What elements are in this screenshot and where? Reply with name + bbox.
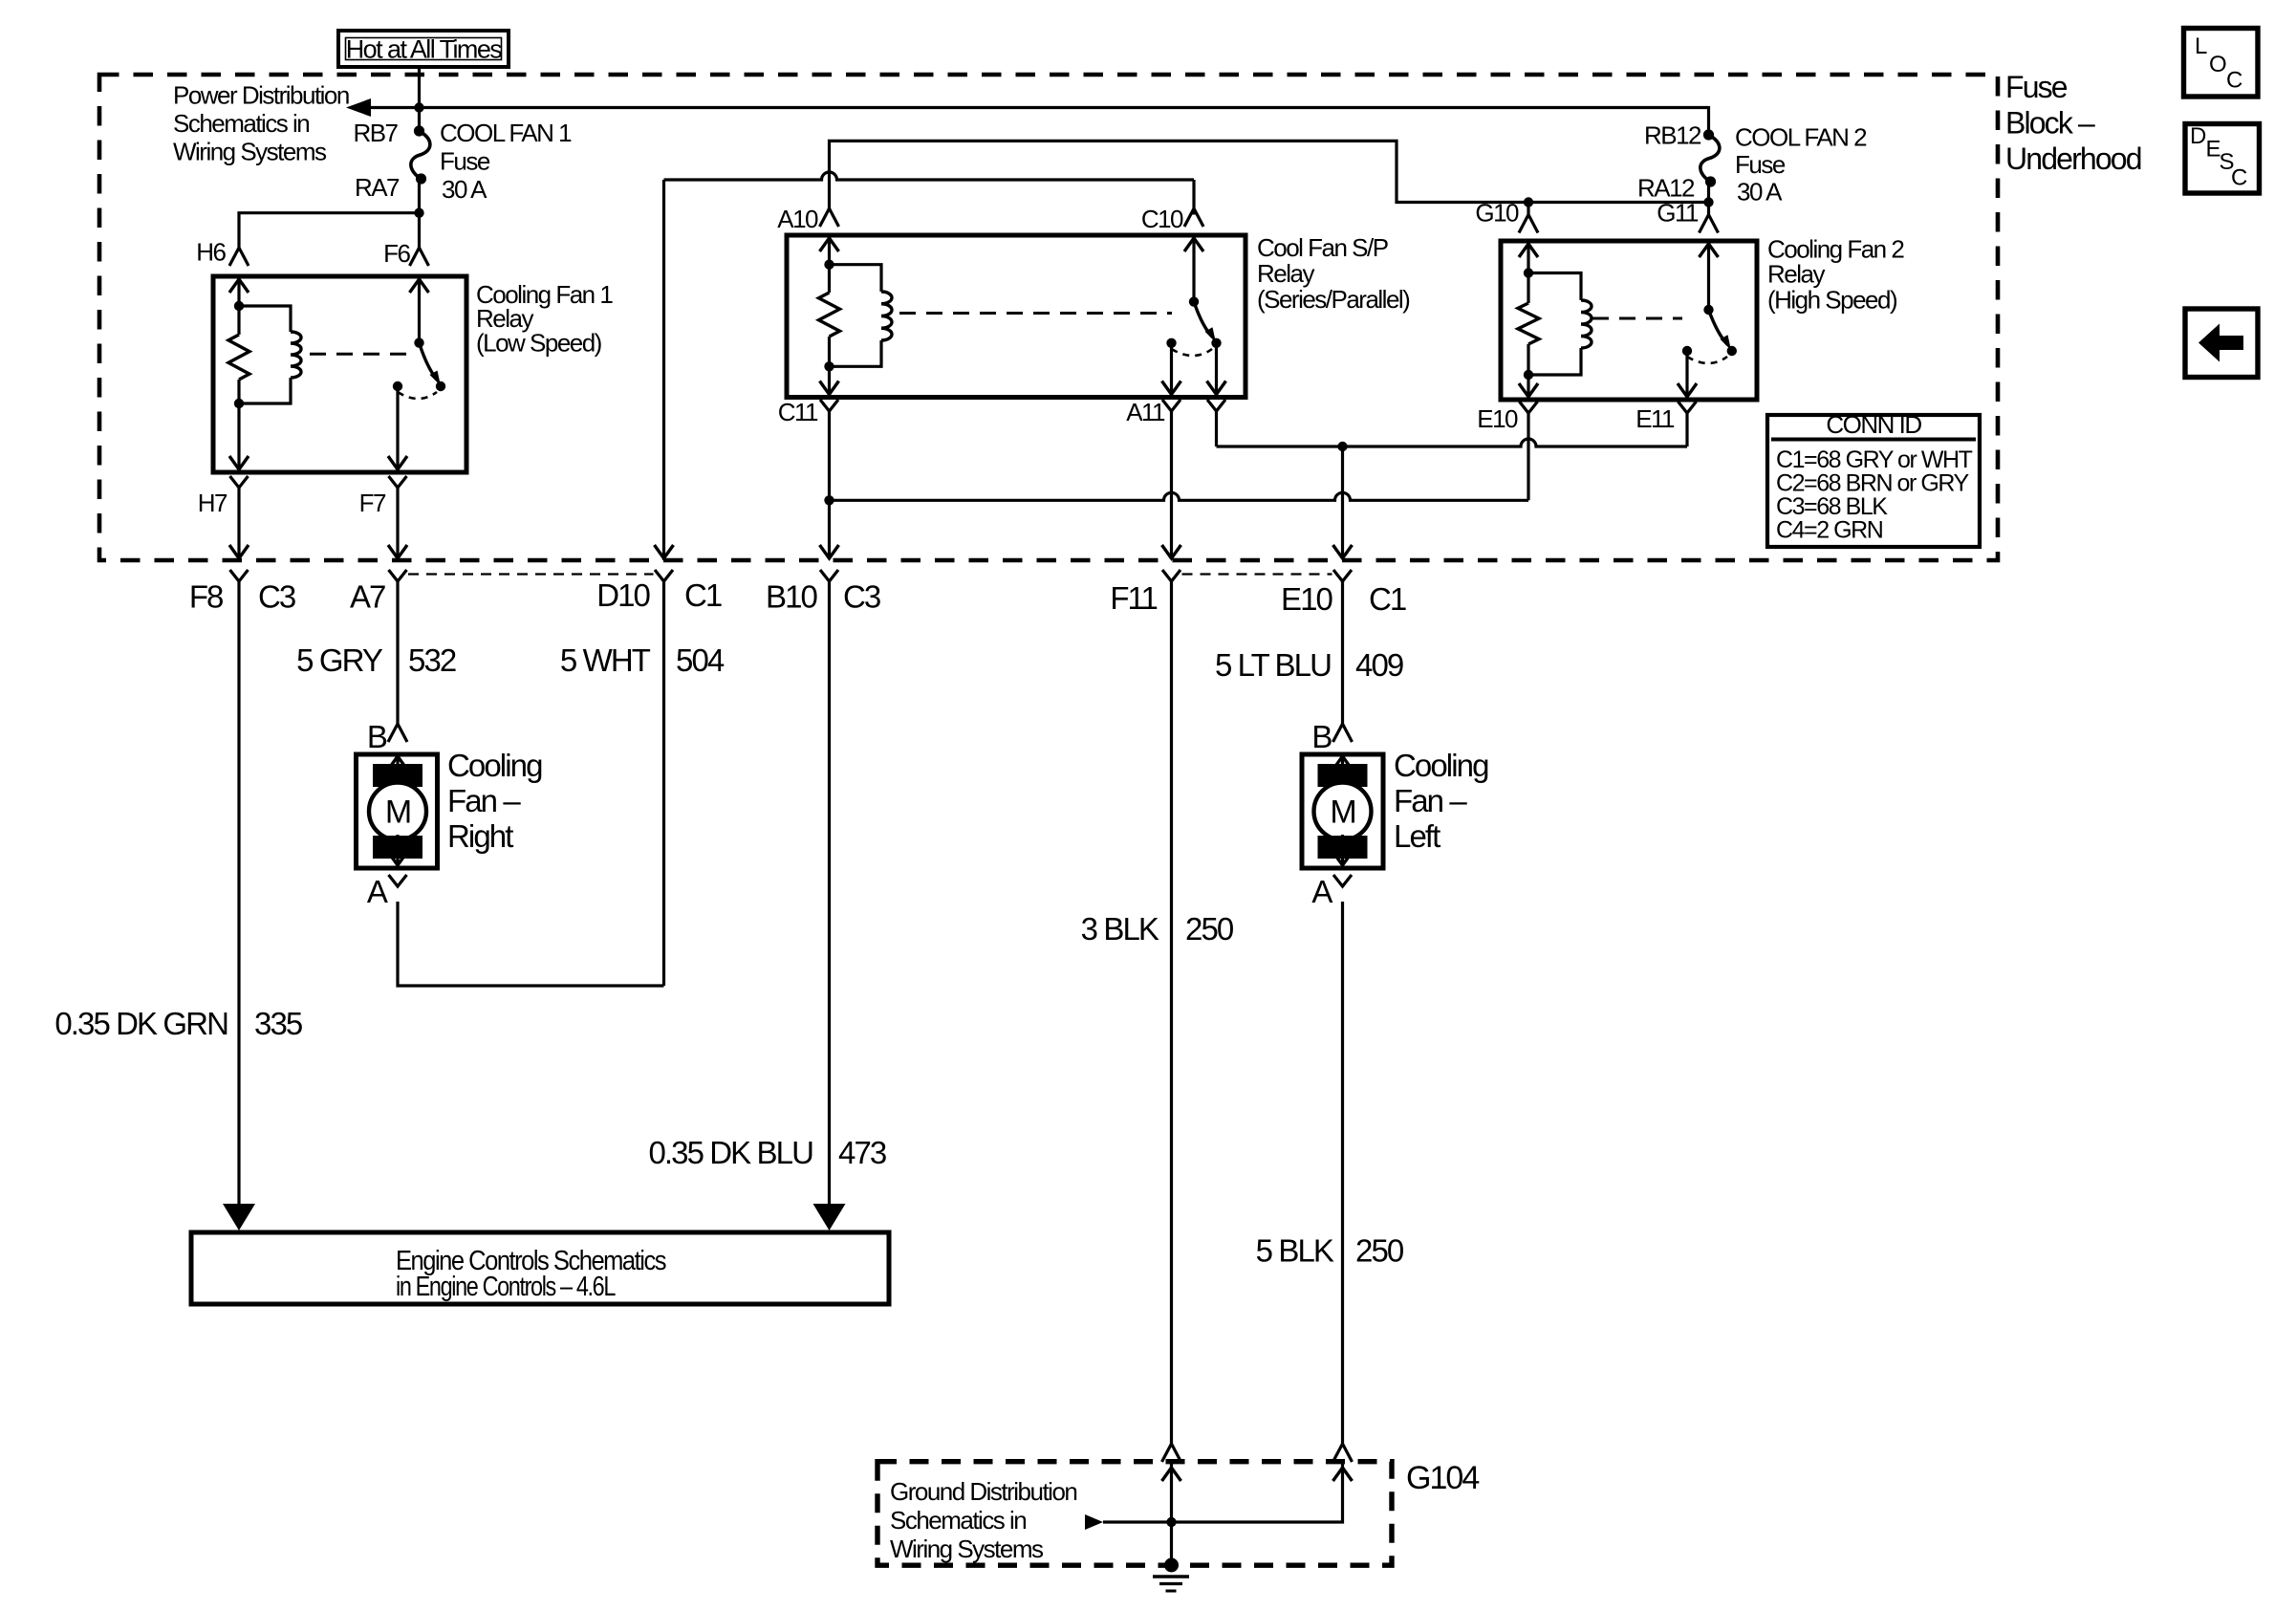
pin H6 <box>229 248 249 266</box>
svg-text:C3: C3 <box>258 579 295 615</box>
relay2 coil output wire <box>828 366 831 394</box>
connector into G104 (3 BLK) <box>1162 1444 1181 1462</box>
svg-text:Cooling: Cooling <box>447 748 542 783</box>
svg-text:Schematics in: Schematics in <box>890 1506 1026 1535</box>
relay2 coil feed arrows <box>820 238 839 251</box>
svg-text:C: C <box>2226 68 2242 94</box>
wire 504 WHT <box>662 581 665 986</box>
svg-text:Relay: Relay <box>1257 259 1314 288</box>
svg-text:COOL FAN 2: COOL FAN 2 <box>1735 123 1867 152</box>
pin relay2 arm output <box>1207 400 1225 411</box>
svg-text:Schematics in: Schematics in <box>173 109 309 138</box>
svg-text:Fan –: Fan – <box>447 783 521 818</box>
svg-text:Power Distribution: Power Distribution <box>173 81 349 110</box>
svg-text:A11: A11 <box>1126 398 1165 426</box>
arrow from ground distribution <box>1085 1514 1103 1530</box>
wire: feed down to fuse2 <box>1707 106 1710 135</box>
svg-text:G10: G10 <box>1475 199 1519 228</box>
wire 250 BLK (5) left fan A to ground <box>1341 902 1344 1444</box>
svg-text:CONN ID: CONN ID <box>1826 410 1921 439</box>
relay1 coil winding <box>239 306 291 332</box>
wire: main battery feed line <box>371 106 1709 109</box>
wire: fuse1 output <box>418 179 421 248</box>
pin B <box>1333 724 1353 742</box>
node relay2 coil top <box>824 260 834 270</box>
svg-text:473: 473 <box>838 1135 886 1170</box>
pin A10 <box>820 208 839 227</box>
wire H7 to F8 <box>237 488 240 558</box>
relay2 switch pivot <box>1189 296 1199 306</box>
wire 250 BLK (3) <box>1170 581 1173 1444</box>
wire: branch to H6 <box>239 213 420 248</box>
svg-text:30 A: 30 A <box>1737 178 1783 207</box>
pin C11 <box>820 400 838 411</box>
svg-text:Underhood: Underhood <box>2005 142 2141 176</box>
node: fuse1 tap junction <box>414 102 423 112</box>
wire: E10C1 drop <box>1341 446 1344 558</box>
svg-text:532: 532 <box>408 642 456 678</box>
wire 409 LT BLU to left fan B <box>1341 581 1344 724</box>
svg-text:Relay: Relay <box>1767 260 1825 289</box>
svg-text:G11: G11 <box>1657 199 1699 228</box>
wire: D10 col arrow <box>655 545 674 558</box>
pin G10 <box>1519 215 1538 233</box>
relay1 switch pivot <box>414 337 423 347</box>
svg-text:5 GRY: 5 GRY <box>296 642 383 678</box>
G104 ground distribution dashed box <box>877 1462 1392 1566</box>
node G10 junction <box>1524 197 1533 207</box>
pin G11 <box>1700 215 1719 233</box>
svg-text:Block –: Block – <box>2005 106 2095 141</box>
LOC button <box>2184 29 2259 98</box>
pin A11 <box>1162 400 1180 411</box>
svg-text:A10: A10 <box>777 205 818 233</box>
svg-text:Cool Fan S/P: Cool Fan S/P <box>1257 233 1388 262</box>
Engine Controls Schematics box <box>191 1232 889 1304</box>
svg-text:0.35 DK BLU: 0.35 DK BLU <box>648 1135 812 1170</box>
svg-text:Fuse: Fuse <box>1735 150 1786 179</box>
node relay2 switch throw contact <box>1211 338 1221 348</box>
svg-text:B: B <box>367 719 387 754</box>
relay3 switch pivot <box>1703 305 1713 315</box>
node relay3 coil top <box>1524 268 1533 277</box>
connector D10|C1 <box>655 570 673 581</box>
svg-text:5 BLK: 5 BLK <box>1256 1233 1334 1269</box>
wire 473 DK BLU <box>828 581 831 1204</box>
relay3 coil feed arrows <box>1519 244 1538 257</box>
connector F8|C3 <box>230 570 249 581</box>
svg-text:G104: G104 <box>1406 1460 1479 1496</box>
svg-text:F8: F8 <box>189 579 223 615</box>
svg-text:(High Speed): (High Speed) <box>1767 286 1897 315</box>
pin A <box>389 875 407 886</box>
node G104 ground junction <box>1166 1517 1176 1527</box>
relay2 dashed actuation link <box>899 312 1172 315</box>
pin E11 <box>1679 402 1697 413</box>
wire: D10 riser to C10 with hop over A10 column <box>664 172 1195 180</box>
relay K1 Cooling Fan 1 Relay (Low Speed) box <box>213 276 466 472</box>
dashed connector line F11-E10 <box>1182 573 1332 575</box>
svg-text:D10: D10 <box>596 577 650 613</box>
fuse COOL FAN 2 30A <box>1700 135 1720 182</box>
relay1 coil output wire <box>237 403 240 469</box>
wire: A10 to G10/G11 feed with jog <box>830 141 1709 208</box>
motor M Cooling Fan Right <box>357 754 438 868</box>
relay K2 Cool Fan S/P Relay box <box>787 235 1245 398</box>
node relay3 switch common contact <box>1682 346 1692 356</box>
svg-text:(Series/Parallel): (Series/Parallel) <box>1257 285 1410 314</box>
wire 335 DK GRN <box>237 581 240 1204</box>
back arrow button <box>2185 309 2258 378</box>
svg-text:Wiring Systems: Wiring Systems <box>890 1535 1044 1563</box>
pin F6 <box>410 248 429 266</box>
svg-text:E: E <box>2206 137 2220 163</box>
svg-text:C1: C1 <box>1369 581 1406 617</box>
node relay1 switch common contact <box>393 381 402 391</box>
svg-text:COOL FAN 1: COOL FAN 1 <box>440 119 572 147</box>
svg-text:in Engine Controls – 4.6L: in Engine Controls – 4.6L <box>396 1272 616 1302</box>
node relay3 coil bottom <box>1524 370 1533 380</box>
svg-text:Fuse: Fuse <box>2005 70 2068 104</box>
pin H7 <box>230 476 249 488</box>
svg-text:L: L <box>2195 33 2207 59</box>
svg-text:Wiring Systems: Wiring Systems <box>173 138 327 166</box>
connector F11 <box>1162 570 1180 581</box>
relay3 coil output wire <box>1527 375 1529 397</box>
fuse block underhood dashed boundary box <box>99 75 1998 560</box>
svg-text:E11: E11 <box>1635 404 1675 433</box>
connector into G104 (5 BLK) <box>1333 1444 1353 1462</box>
wire ground drop to G104 <box>1170 1462 1173 1565</box>
relay K3 Cooling Fan 2 Relay box <box>1501 241 1757 400</box>
pin E10 <box>1520 402 1538 413</box>
svg-text:B10: B10 <box>766 579 818 615</box>
node relay1 coil top <box>234 301 244 311</box>
svg-text:H7: H7 <box>198 489 227 517</box>
svg-text:0.35 DK GRN: 0.35 DK GRN <box>54 1006 227 1041</box>
CONN ID table <box>1767 415 1980 547</box>
svg-text:Ground Distribution: Ground Distribution <box>890 1477 1076 1506</box>
svg-text:504: 504 <box>676 642 725 678</box>
wire: relay2 arm output to E11 <box>1215 411 1218 446</box>
svg-text:O: O <box>2209 52 2226 77</box>
wire: fuse2 output to G11 <box>1707 182 1710 215</box>
node E10-C1 tap junction <box>1337 442 1347 451</box>
svg-text:30 A: 30 A <box>442 175 487 204</box>
ground symbol G104 <box>1164 1558 1179 1573</box>
svg-text:E10: E10 <box>1281 581 1333 617</box>
svg-text:C11: C11 <box>778 398 818 426</box>
svg-text:E10: E10 <box>1477 404 1518 433</box>
svg-text:A: A <box>367 874 388 909</box>
svg-text:Fuse: Fuse <box>440 147 490 176</box>
svg-text:A7: A7 <box>350 579 385 615</box>
svg-text:B: B <box>1311 719 1332 754</box>
svg-text:Right: Right <box>447 818 513 854</box>
wire G10 drop <box>1527 203 1529 215</box>
relay3 dashed actuation link <box>1592 317 1682 320</box>
pin C10 <box>1184 208 1203 227</box>
node relay1 switch throw contact <box>436 381 445 391</box>
svg-text:C: C <box>2231 165 2247 191</box>
svg-text:335: 335 <box>254 1006 302 1041</box>
node RA12/G11 junction <box>1703 197 1713 207</box>
svg-text:RB7: RB7 <box>353 119 398 147</box>
svg-text:3 BLK: 3 BLK <box>1081 911 1159 947</box>
connector B10|C3 <box>820 570 838 581</box>
svg-text:F7: F7 <box>359 489 386 517</box>
relay2 coil winding <box>830 265 882 292</box>
Hot at All Times box <box>338 31 509 67</box>
wire F7 to A7 <box>396 488 399 558</box>
svg-text:F6: F6 <box>383 239 410 268</box>
node relay3 switch throw contact <box>1727 346 1737 356</box>
connector A7 <box>389 570 407 581</box>
svg-text:F11: F11 <box>1110 580 1157 616</box>
svg-text:250: 250 <box>1185 911 1234 947</box>
wire: C11 junction to relay3 E10 <box>828 411 831 558</box>
svg-text:5 WHT: 5 WHT <box>560 642 651 678</box>
svg-text:RA7: RA7 <box>355 173 400 202</box>
svg-text:Fan –: Fan – <box>1394 783 1467 818</box>
relay1 dashed actuation link <box>310 353 415 356</box>
wire left fan ground to G104 node <box>1103 1462 1343 1522</box>
svg-text:409: 409 <box>1355 647 1403 683</box>
svg-text:C4=2 GRN: C4=2 GRN <box>1776 517 1883 544</box>
connector E10|C1 <box>1333 570 1352 581</box>
svg-text:Hot at All Times: Hot at All Times <box>346 35 503 64</box>
svg-text:A: A <box>1311 874 1332 909</box>
dashed connector line A7-D10 <box>408 573 654 575</box>
pin B <box>388 724 407 742</box>
fuse COOL FAN 1 30A <box>411 131 430 179</box>
node fuse1 output junction <box>414 208 423 218</box>
svg-text:H6: H6 <box>196 238 226 267</box>
wire right fan A loop <box>398 902 664 986</box>
svg-text:250: 250 <box>1355 1233 1404 1269</box>
svg-text:C10: C10 <box>1141 205 1183 233</box>
svg-text:M: M <box>385 795 410 831</box>
svg-text:(Low Speed): (Low Speed) <box>476 329 602 358</box>
svg-text:5 LT BLU: 5 LT BLU <box>1215 647 1331 683</box>
svg-text:C3: C3 <box>843 579 880 615</box>
relay1 coil feed arrows <box>229 279 249 293</box>
wire 532 GRY to right fan B <box>396 581 399 724</box>
svg-text:M: M <box>1330 795 1354 831</box>
node relay1 coil bottom <box>234 399 244 408</box>
arrow to power distribution <box>346 98 371 117</box>
relay3 coil winding <box>1528 273 1581 301</box>
svg-text:RB12: RB12 <box>1644 121 1701 150</box>
node relay2 coil bottom <box>824 361 834 371</box>
svg-text:Cooling: Cooling <box>1394 748 1488 783</box>
pin A <box>1333 875 1352 886</box>
node relay2 switch common contact <box>1166 338 1176 348</box>
svg-text:C1: C1 <box>684 577 722 613</box>
pin F7 <box>389 476 407 488</box>
motor M Cooling Fan Left <box>1302 754 1383 868</box>
DESC button <box>2185 124 2260 194</box>
svg-text:D: D <box>2190 123 2206 149</box>
wire: A11 to F11 <box>1170 411 1173 558</box>
node C11/B10 tap junction <box>824 495 834 505</box>
svg-text:Left: Left <box>1394 818 1440 854</box>
